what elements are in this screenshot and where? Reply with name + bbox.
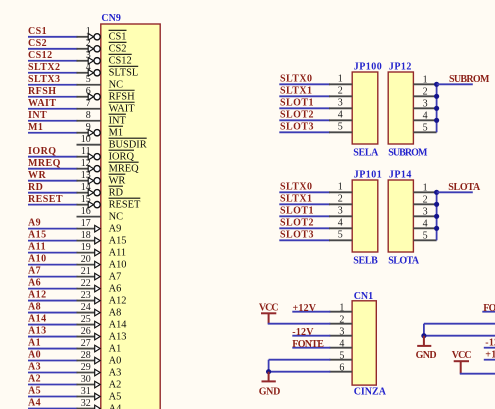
net label SLOT3 (280, 229, 314, 240)
svg-text:29: 29 (81, 362, 91, 373)
svg-text:A3: A3 (28, 362, 41, 373)
wire net SLOT2 to JP101 pin 4 (279, 227, 330, 229)
svg-text:A14: A14 (109, 319, 128, 330)
CN9 pin 12 (MREQ) (77, 158, 140, 175)
JP12 pin 3 (413, 99, 436, 110)
designator JP101 (354, 170, 382, 181)
CN9 pin 29 (A3) (77, 362, 122, 379)
svg-text:A11: A11 (109, 248, 127, 259)
junction JP14 pin 2 (434, 202, 439, 207)
CN9 pin 15 (RESET) (77, 194, 142, 211)
net label A3 (28, 362, 41, 373)
svg-text:CN9: CN9 (101, 13, 120, 24)
svg-text:A4: A4 (28, 398, 41, 409)
power VCC (right) (452, 350, 472, 374)
wire net A8 to CN9 pin 24 (28, 312, 78, 314)
svg-text:A2: A2 (28, 374, 41, 385)
svg-text:4: 4 (86, 62, 91, 73)
svg-text:JP100: JP100 (354, 62, 382, 73)
connector JP100 body (352, 72, 378, 144)
svg-text:A11: A11 (28, 242, 46, 253)
designator JP100 (354, 62, 382, 73)
wire net -12V (right) (484, 347, 495, 349)
svg-text:-12V: -12V (292, 327, 314, 338)
svg-text:2: 2 (423, 87, 428, 98)
svg-text:14: 14 (81, 182, 91, 193)
svg-text:A1: A1 (109, 343, 122, 354)
junction JP14 pin 4 (434, 226, 439, 231)
CN9 pin 1 (CS1) (77, 26, 127, 43)
CN9 pin 7 (WAIT) (77, 98, 136, 115)
svg-text:27: 27 (81, 338, 91, 349)
CN9 pin 22 (A6) (77, 278, 122, 295)
svg-text:3: 3 (423, 99, 428, 110)
JP100 pin 4 (329, 109, 352, 120)
svg-text:SLOT1: SLOT1 (280, 205, 314, 216)
CN9 pin 26 (A13) (77, 326, 127, 343)
svg-text:A0: A0 (28, 350, 41, 361)
net label A9 (28, 218, 41, 229)
connector JP12 body (388, 72, 413, 144)
svg-text:5: 5 (423, 123, 428, 134)
wire GND to CN1 pin 5 (269, 360, 331, 372)
CN9 pin 16 (NC) (77, 206, 124, 223)
svg-text:FONTE: FONTE (292, 339, 324, 350)
JP100 pin 3 (329, 97, 352, 108)
svg-text:INT: INT (28, 110, 47, 121)
CN9 pin 13 (WR) (77, 170, 126, 187)
wire net SLTX0 to JP100 pin 1 (279, 83, 330, 85)
svg-text:A10: A10 (109, 260, 127, 271)
svg-text:A13: A13 (28, 326, 47, 337)
wire GND feed upper (right) (424, 324, 495, 336)
designator JP14 (389, 170, 412, 181)
svg-text:3: 3 (86, 50, 91, 61)
wire net +12V to CN1 pin 1 (292, 311, 330, 313)
net label CS1 (28, 26, 47, 37)
bus wire joining JP14 pins (436, 192, 438, 240)
net label SLTX1 (280, 193, 312, 204)
net label WR (28, 170, 46, 181)
connector JP101 body (352, 180, 378, 252)
svg-text:21: 21 (81, 266, 91, 277)
junction GND node (right) (421, 333, 426, 338)
net label A0 (28, 350, 41, 361)
CN9 pin 21 (A7) (77, 266, 122, 283)
CN9 pin 10 (BUSDIR) (77, 134, 147, 151)
svg-text:24: 24 (81, 302, 91, 313)
wire net CS1 to CN9 pin 1 (28, 36, 78, 38)
svg-text:4: 4 (338, 217, 343, 228)
net label SLOT1 (280, 205, 314, 216)
svg-text:IORQ: IORQ (28, 146, 56, 157)
svg-text:6: 6 (339, 362, 344, 373)
net label SLOT1 (280, 97, 314, 108)
junction JP12 pin 2 (434, 94, 439, 99)
svg-text:SLTX1: SLTX1 (280, 193, 312, 204)
net label SLTX0 (280, 73, 312, 84)
svg-text:A5: A5 (28, 386, 41, 397)
wire net SLTX1 to JP101 pin 2 (279, 203, 330, 205)
svg-text:SUBROM: SUBROM (449, 74, 490, 85)
svg-text:SLTX1: SLTX1 (280, 85, 312, 96)
svg-text:SLOT3: SLOT3 (280, 229, 314, 240)
svg-text:WAIT: WAIT (28, 98, 56, 109)
wire net SLTX3 to CN9 pin 5 (28, 84, 78, 86)
wire net CS12 to CN9 pin 3 (28, 60, 78, 62)
svg-text:SLTSL: SLTSL (109, 68, 139, 79)
CN9 pin 6 (RFSH) (77, 86, 136, 103)
junction JP12 pin 4 (434, 118, 439, 123)
wire net A6 to CN9 pin 22 (28, 288, 78, 290)
svg-text:A8: A8 (28, 302, 41, 313)
svg-text:4: 4 (339, 338, 344, 349)
CN1 pin 4 (329, 338, 352, 349)
svg-text:SUBROM: SUBROM (388, 148, 428, 159)
svg-text:2: 2 (339, 314, 344, 325)
designator CN1 (354, 291, 373, 302)
svg-text:A5: A5 (109, 391, 122, 402)
wire VCC to CN1 pin 2 (268, 323, 331, 325)
svg-text:12: 12 (81, 158, 91, 169)
svg-text:INT: INT (109, 116, 127, 127)
svg-text:JP12: JP12 (389, 62, 412, 73)
net label SLTX3 (28, 74, 60, 85)
CN9 pin 8 (INT) (77, 110, 127, 127)
svg-text:5: 5 (86, 74, 91, 85)
wire net SLOT2 to JP100 pin 4 (279, 119, 330, 121)
wire net A5 to CN9 pin 31 (28, 396, 78, 398)
svg-text:30: 30 (81, 374, 91, 385)
svg-text:26: 26 (81, 326, 91, 337)
svg-text:22: 22 (81, 278, 91, 289)
svg-text:4: 4 (338, 109, 343, 120)
wire net A13 to CN9 pin 26 (28, 336, 78, 338)
label CINZA (354, 386, 387, 397)
svg-text:A2: A2 (109, 379, 122, 390)
svg-text:3: 3 (338, 97, 343, 108)
svg-text:A6: A6 (109, 283, 122, 294)
svg-text:15: 15 (81, 194, 91, 205)
svg-text:SLOT2: SLOT2 (280, 109, 314, 120)
net label RD (28, 182, 43, 193)
CN9 pin 23 (A12) (77, 290, 127, 307)
JP12 pin 4 (413, 111, 436, 122)
svg-text:GND: GND (259, 386, 280, 397)
CN9 pin 17 (A9) (77, 218, 122, 235)
net label +12V (293, 303, 317, 314)
svg-text:SLOTA: SLOTA (448, 182, 481, 193)
junction GND node (266, 369, 271, 374)
JP101 pin 2 (329, 193, 352, 204)
JP14 pin 2 (413, 195, 436, 206)
wire net CS2 to CN9 pin 2 (28, 48, 78, 50)
svg-text:A13: A13 (109, 331, 127, 342)
junction JP12 pin 3 (434, 106, 439, 111)
net label M1 (28, 122, 43, 133)
CN9 pin 30 (A2) (77, 374, 122, 391)
CN9 pin 32 (A4) (77, 398, 123, 409)
wire net RD to CN9 pin 14 (28, 192, 78, 194)
svg-text:M1: M1 (109, 128, 123, 139)
svg-text:NC: NC (109, 212, 124, 223)
wire net A7 to CN9 pin 21 (28, 276, 78, 278)
svg-text:11: 11 (81, 146, 91, 157)
JP101 pin 1 (329, 181, 352, 192)
wire net A9 to CN9 pin 17 (28, 228, 78, 230)
wire net MREQ to CN9 pin 12 (28, 168, 78, 170)
net label SLOT2 (280, 217, 314, 228)
svg-text:RESET: RESET (109, 200, 141, 211)
svg-text:M1: M1 (28, 122, 43, 133)
JP14 pin 4 (413, 219, 436, 230)
JP14 pin 3 (413, 207, 436, 218)
net label FONTE (right, clipped) (483, 303, 495, 314)
wire net A2 to CN9 pin 30 (28, 384, 78, 386)
svg-text:4: 4 (423, 219, 428, 230)
svg-text:SELA: SELA (353, 148, 379, 159)
CN9 pin 4 (SLTSL) (77, 62, 139, 79)
wire net SLOT3 to JP100 pin 5 (279, 131, 330, 133)
connector CN1 body (352, 301, 376, 385)
svg-text:32: 32 (81, 398, 91, 409)
svg-text:RD: RD (28, 182, 43, 193)
svg-text:BUSDIR: BUSDIR (109, 140, 147, 151)
net label WAIT (28, 98, 56, 109)
svg-text:WAIT: WAIT (109, 104, 136, 115)
svg-text:2: 2 (423, 195, 428, 206)
svg-text:VCC: VCC (259, 303, 279, 314)
label SLOTA (388, 256, 420, 267)
svg-text:31: 31 (81, 386, 91, 397)
CN9 pin 14 (RD) (77, 182, 124, 199)
net label A13 (28, 326, 47, 337)
svg-text:1: 1 (339, 302, 344, 313)
svg-text:3: 3 (338, 205, 343, 216)
svg-text:NC: NC (109, 80, 124, 91)
wire net A1 to CN9 pin 27 (28, 348, 78, 350)
JP100 pin 5 (329, 121, 352, 132)
ground GND (right) (416, 336, 437, 361)
svg-text:SELB: SELB (353, 256, 378, 267)
svg-text:3: 3 (423, 207, 428, 218)
svg-text:CS12: CS12 (109, 56, 132, 67)
svg-text:2: 2 (86, 38, 91, 49)
wire VCC feed (right) (460, 373, 495, 375)
svg-text:5: 5 (338, 229, 343, 240)
junction JP14 pin 1 (434, 190, 439, 195)
svg-text:6: 6 (86, 86, 91, 97)
net label FONTE (292, 339, 324, 350)
wire net RESET to CN9 pin 15 (28, 204, 78, 206)
svg-text:28: 28 (81, 350, 91, 361)
wire net A3 to CN9 pin 29 (28, 372, 78, 374)
CN9 pin 24 (A8) (77, 302, 122, 319)
svg-text:19: 19 (81, 242, 91, 253)
svg-text:8: 8 (86, 110, 91, 121)
svg-text:MREQ: MREQ (28, 158, 61, 169)
svg-text:RFSH: RFSH (109, 92, 135, 103)
connector CN9 body (101, 24, 160, 409)
svg-text:RFSH: RFSH (28, 86, 56, 97)
net label SLOT2 (280, 109, 314, 120)
bus wire joining JP12 pins (436, 84, 438, 132)
JP14 pin 5 (413, 231, 436, 242)
wire net WAIT to CN9 pin 7 (28, 108, 78, 110)
wire net WR to CN9 pin 13 (28, 180, 78, 182)
wire net FONTE (right) (482, 311, 495, 313)
wire net A15 to CN9 pin 18 (28, 240, 78, 242)
net label +12V (right, clipped) (485, 350, 495, 361)
CN9 pin 9 (M1) (77, 122, 124, 139)
svg-text:A12: A12 (28, 290, 47, 301)
net label A6 (28, 278, 41, 289)
svg-text:VCC: VCC (452, 350, 472, 361)
net label SLOTA (448, 182, 481, 193)
svg-text:3: 3 (339, 326, 344, 337)
CN1 pin 6 (329, 362, 352, 373)
svg-text:WR: WR (28, 170, 46, 181)
svg-text:A7: A7 (109, 272, 122, 283)
svg-text:1: 1 (86, 26, 91, 37)
wire net SLOT1 to JP101 pin 3 (279, 215, 330, 217)
CN9 pin 25 (A14) (77, 314, 128, 331)
net label SLTX2 (28, 62, 60, 73)
svg-text:A12: A12 (109, 295, 127, 306)
svg-text:CS1: CS1 (28, 26, 47, 37)
svg-text:25: 25 (81, 314, 91, 325)
svg-text:5: 5 (339, 350, 344, 361)
svg-text:MREQ: MREQ (109, 164, 140, 175)
wire net A10 to CN9 pin 20 (28, 264, 78, 266)
svg-text:CS1: CS1 (109, 32, 127, 43)
wire net M1 to CN9 pin 9 (28, 132, 78, 134)
CN1 pin 5 (329, 350, 352, 361)
svg-text:SLTX3: SLTX3 (28, 74, 60, 85)
svg-text:17: 17 (81, 218, 91, 229)
JP100 pin 2 (329, 85, 352, 96)
svg-text:5: 5 (338, 121, 343, 132)
svg-text:JP101: JP101 (354, 170, 382, 181)
svg-text:A14: A14 (28, 314, 47, 325)
CN9 pin 31 (A5) (77, 386, 122, 403)
svg-text:A15: A15 (28, 230, 47, 241)
svg-text:4: 4 (423, 111, 428, 122)
ground GND (CN1) (259, 372, 280, 398)
net label A15 (28, 230, 47, 241)
CN9 pin 19 (A11) (77, 242, 127, 259)
wire net A12 to CN9 pin 23 (28, 300, 78, 302)
svg-text:1: 1 (423, 75, 428, 86)
CN1 pin 2 (329, 314, 352, 325)
net label A2 (28, 374, 41, 385)
svg-text:SLTX2: SLTX2 (28, 62, 60, 73)
net label A5 (28, 386, 41, 397)
net label IORQ (28, 146, 56, 157)
net label A4 (28, 398, 41, 409)
svg-text:SLOT2: SLOT2 (280, 217, 314, 228)
svg-text:+12V: +12V (293, 303, 317, 314)
net label RESET (28, 194, 63, 205)
svg-text:1: 1 (338, 73, 343, 84)
svg-text:CN1: CN1 (354, 291, 373, 302)
svg-text:A6: A6 (28, 278, 41, 289)
svg-text:A15: A15 (109, 236, 127, 247)
net label -12V (292, 327, 314, 338)
net label A8 (28, 302, 41, 313)
svg-text:A8: A8 (109, 307, 122, 318)
net label CS12 (28, 50, 53, 61)
svg-text:A3: A3 (109, 367, 122, 378)
svg-text:23: 23 (81, 290, 91, 301)
net label CS2 (28, 38, 47, 49)
svg-text:CS2: CS2 (109, 44, 127, 55)
wire net +12V (right) (484, 359, 495, 361)
net label A11 (28, 242, 46, 253)
net label A1 (28, 338, 41, 349)
wire net IORQ to CN9 pin 11 (28, 156, 78, 158)
net label A14 (28, 314, 47, 325)
wire net SUBROM (437, 83, 473, 85)
svg-text:A10: A10 (28, 254, 47, 265)
svg-text:SLTX0: SLTX0 (280, 73, 312, 84)
CN9 pin 5 (NC) (77, 74, 124, 91)
svg-text:A1: A1 (28, 338, 41, 349)
wire net SLOT3 to JP101 pin 5 (279, 239, 330, 241)
svg-text:RD: RD (109, 188, 124, 199)
svg-text:SLOTA: SLOTA (388, 256, 420, 267)
CN9 pin 28 (A0) (77, 350, 122, 367)
svg-text:SLOT3: SLOT3 (280, 121, 314, 132)
svg-text:2: 2 (338, 193, 343, 204)
net label INT (28, 110, 47, 121)
net label MREQ (28, 158, 61, 169)
svg-text:CINZA: CINZA (354, 386, 387, 397)
svg-text:JP14: JP14 (389, 170, 412, 181)
junction JP12 pin 1 (434, 82, 439, 87)
designator JP12 (389, 62, 412, 73)
wire net A11 to CN9 pin 19 (28, 252, 78, 254)
net label RFSH (28, 86, 56, 97)
CN1 pin 1 (329, 302, 352, 313)
CN9 pin 11 (IORQ) (77, 146, 135, 163)
wire net INT to CN9 pin 8 (28, 120, 78, 122)
svg-text:CS2: CS2 (28, 38, 47, 49)
svg-text:SLTX0: SLTX0 (280, 181, 312, 192)
wire GND to CN1 pin 6 (268, 371, 331, 373)
label SELA (353, 148, 379, 159)
CN9 pin 20 (A10) (77, 254, 127, 271)
svg-text:1: 1 (338, 181, 343, 192)
wire net SLOTA (437, 191, 473, 193)
net label A7 (28, 266, 41, 277)
svg-text:A0: A0 (109, 355, 122, 366)
label SELB (353, 256, 378, 267)
net label SLTX0 (280, 181, 312, 192)
svg-text:20: 20 (81, 254, 91, 265)
svg-text:2: 2 (338, 85, 343, 96)
power VCC (CN1) (259, 303, 279, 324)
svg-text:SLOT1: SLOT1 (280, 97, 314, 108)
svg-text:10: 10 (81, 134, 91, 145)
wire net SLTX2 to CN9 pin 4 (28, 72, 78, 74)
wire net RFSH to CN9 pin 6 (28, 96, 78, 98)
JP12 pin 2 (413, 87, 436, 98)
wire net A0 to CN9 pin 28 (28, 360, 78, 362)
svg-text:CS12: CS12 (28, 50, 53, 61)
svg-text:GND: GND (416, 350, 437, 361)
svg-text:IORQ: IORQ (109, 152, 135, 163)
